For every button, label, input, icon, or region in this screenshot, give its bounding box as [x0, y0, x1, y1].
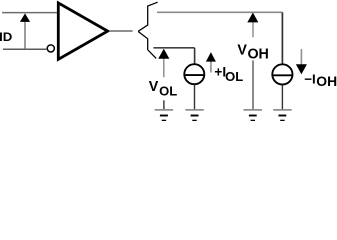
buffer U1 [58, 3, 107, 59]
wire: IOL source to ground [194, 84, 196, 109]
svg-text:+IOL: +IOL [214, 64, 243, 84]
current source IOL [184, 64, 204, 84]
wire: VOH ground stub [252, 60, 254, 109]
svg-text:−IOH: −IOH [304, 71, 337, 89]
switch S1 lower throw [138, 32, 156, 59]
voltage arrow VID [20, 13, 30, 49]
wire: U1 output [109, 30, 132, 32]
ground under VOH [244, 110, 263, 121]
wire: top rail (switch to VOH node) [157, 11, 282, 13]
current source IOH [272, 64, 292, 84]
wire: right vertical drop to IOH source [281, 12, 283, 64]
svg-text:VOH: VOH [237, 42, 269, 62]
switch S1 upper throw [138, 2, 157, 31]
wire: input top rail [2, 12, 57, 14]
ground under VOL [155, 110, 173, 121]
voltage arrow VOL [158, 49, 169, 77]
ground under IOL source [185, 110, 204, 121]
wire: input bottom rail [3, 48, 47, 50]
current direction arrow +IOL [206, 52, 216, 72]
inverting bubble on U1 lower input [47, 45, 54, 52]
svg-text:VOL: VOL [149, 79, 177, 98]
wire: rail corner down into IOL source [194, 48, 196, 65]
ground under IOH source [273, 110, 292, 121]
svg-text:ID: ID [0, 30, 12, 43]
voltage arrow VOH [247, 13, 258, 38]
wire: bottom rail (switch to IOL source) [153, 47, 194, 49]
wire: IOH source to ground [281, 85, 283, 110]
current direction arrow -IOH [296, 49, 307, 74]
wire: VOL ground stub [163, 100, 165, 109]
